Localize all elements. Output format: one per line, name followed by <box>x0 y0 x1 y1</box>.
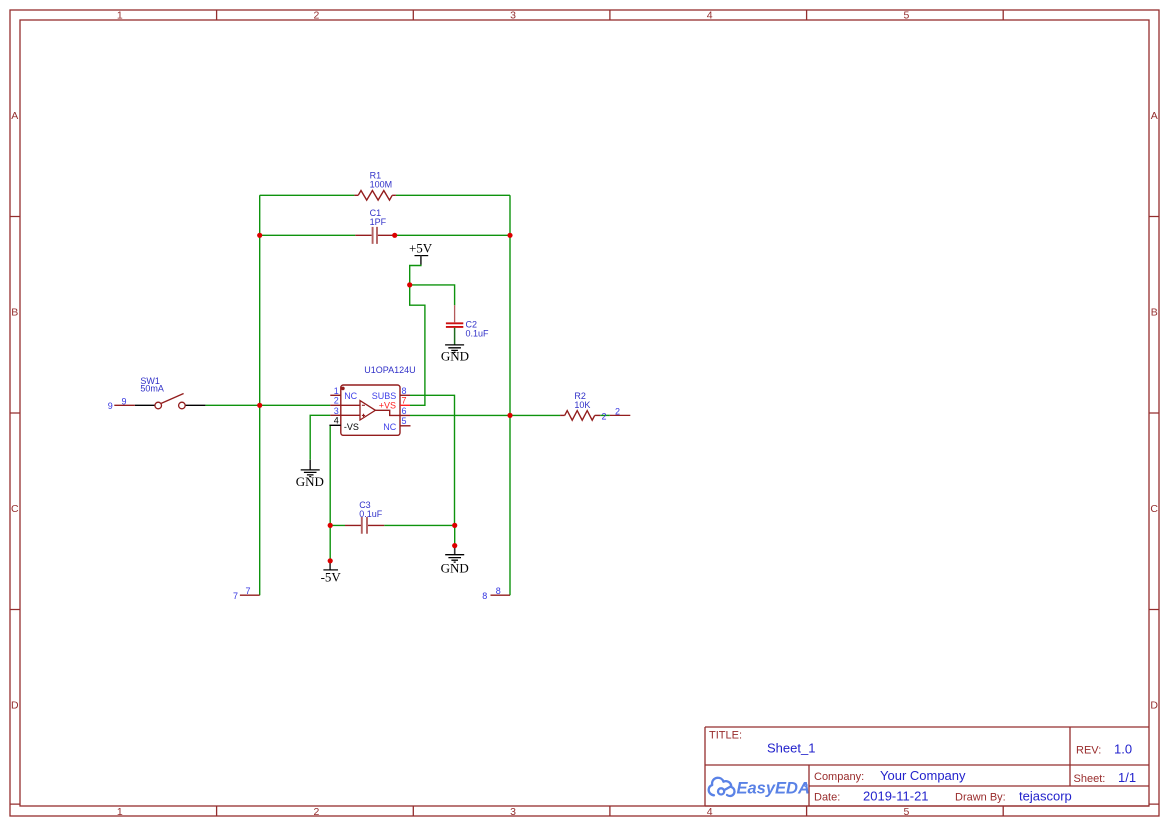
op-amp U1 <box>341 385 410 435</box>
junction output vertical <box>507 413 512 418</box>
svg-text:1PF: 1PF <box>370 217 387 227</box>
wire SUBS pin8 <box>410 395 455 525</box>
title block frame <box>705 727 1149 806</box>
wire left vertical <box>259 195 261 595</box>
svg-text:U1OPA124U: U1OPA124U <box>364 365 415 375</box>
netflag 9 lead <box>114 404 135 406</box>
junction GND bottom <box>452 543 457 548</box>
svg-text:4: 4 <box>707 806 713 818</box>
svg-text:9: 9 <box>108 401 113 411</box>
ruler numbers bottom <box>117 806 910 818</box>
pin 7 stub <box>400 404 410 406</box>
ruler ticks right <box>1149 217 1159 805</box>
wire R1 top row <box>260 194 510 196</box>
svg-text:GND: GND <box>441 560 469 575</box>
svg-text:TITLE:: TITLE: <box>709 730 742 742</box>
pin 1 stub <box>330 394 341 396</box>
ruler ticks bottom <box>217 806 1004 816</box>
svg-text:7: 7 <box>245 586 250 596</box>
pin 5 stub <box>400 425 411 427</box>
junction +5V node <box>407 282 412 287</box>
svg-text:9: 9 <box>121 396 126 406</box>
junction switch pin2 <box>257 403 262 408</box>
EasyEDA logo cloud <box>709 778 735 796</box>
wire C3 right to ground <box>454 525 456 545</box>
resistor R1 <box>354 191 396 201</box>
svg-text:Your Company: Your Company <box>880 768 966 783</box>
wire R2 to netflag 2 <box>600 414 610 416</box>
wire C1 row <box>260 234 510 236</box>
svg-text:NC: NC <box>344 391 357 401</box>
pin 3 stub <box>330 414 341 416</box>
svg-text:8: 8 <box>496 586 501 596</box>
svg-text:50mA: 50mA <box>140 383 164 393</box>
junction -5V <box>328 558 333 563</box>
svg-text:Company:: Company: <box>814 771 864 783</box>
svg-text:1.0: 1.0 <box>1114 741 1132 756</box>
junction C3 left <box>328 523 333 528</box>
wire C3 row <box>330 524 455 526</box>
power flag +5V <box>409 241 433 265</box>
svg-text:1: 1 <box>334 386 339 396</box>
netflag 2 lead <box>610 414 631 416</box>
wire +5V node to C2 <box>410 285 455 305</box>
resistor R2 <box>560 411 600 421</box>
svg-text:4: 4 <box>334 416 339 426</box>
svg-text:D: D <box>1150 699 1158 711</box>
svg-text:3: 3 <box>510 10 516 22</box>
svg-text:7: 7 <box>402 396 407 406</box>
junction C1 right vertical <box>507 233 512 238</box>
ground GND under C2 <box>441 345 469 364</box>
wire output pin6 to R2 <box>410 414 560 416</box>
wire +5V feed <box>410 265 421 285</box>
capacitor C2 <box>446 305 463 345</box>
ground GND at pin3 <box>296 460 324 489</box>
svg-text:5: 5 <box>903 806 909 818</box>
junction C3 right <box>452 523 457 528</box>
wire switch to pin2 <box>205 404 330 406</box>
svg-text:SUBS: SUBS <box>372 391 397 401</box>
svg-text:1/1: 1/1 <box>1118 770 1136 785</box>
svg-text:-5V: -5V <box>321 569 342 584</box>
junction C1 left <box>257 233 262 238</box>
svg-text:8: 8 <box>482 591 487 601</box>
ground GND bottom <box>441 546 469 576</box>
capacitor C3 <box>345 517 384 534</box>
svg-text:2: 2 <box>615 406 620 416</box>
svg-text:7: 7 <box>233 591 238 601</box>
svg-text:-VS: -VS <box>344 422 359 432</box>
svg-text:2019-11-21: 2019-11-21 <box>863 789 929 804</box>
svg-text:B: B <box>11 306 18 318</box>
svg-text:GND: GND <box>296 474 324 489</box>
svg-text:C: C <box>11 503 19 515</box>
svg-text:EasyEDA: EasyEDA <box>737 780 810 798</box>
svg-text:B: B <box>1151 306 1158 318</box>
ruler ticks left <box>10 217 20 805</box>
pin 2 stub <box>330 404 341 406</box>
svg-text:Sheet_1: Sheet_1 <box>767 741 815 756</box>
svg-text:100M: 100M <box>370 180 393 190</box>
svg-text:3: 3 <box>510 806 516 818</box>
svg-text:A: A <box>11 110 18 122</box>
svg-text:6: 6 <box>402 406 407 416</box>
svg-text:A: A <box>1151 110 1158 122</box>
svg-text:tejascorp: tejascorp <box>1019 789 1072 804</box>
svg-text:3: 3 <box>334 406 339 416</box>
svg-text:2: 2 <box>602 412 607 422</box>
svg-text:2: 2 <box>313 10 319 22</box>
junction C1 right lead <box>392 233 397 238</box>
netflag 7 lead <box>240 594 260 596</box>
svg-text:Sheet:: Sheet: <box>1074 773 1106 785</box>
svg-text:GND: GND <box>441 349 469 364</box>
svg-text:0.1uF: 0.1uF <box>359 509 383 519</box>
svg-text:+5V: +5V <box>409 241 433 256</box>
svg-text:1: 1 <box>117 10 123 22</box>
svg-text:5: 5 <box>903 10 909 22</box>
svg-text:5: 5 <box>402 416 407 426</box>
svg-text:C: C <box>1150 503 1158 515</box>
svg-text:4: 4 <box>707 10 713 22</box>
wire right vertical <box>509 195 511 595</box>
svg-text:Drawn By:: Drawn By: <box>955 792 1006 804</box>
pin 8 stub <box>400 394 410 396</box>
ruler letters right <box>1150 110 1158 712</box>
ruler numbers top <box>117 10 910 22</box>
svg-text:1: 1 <box>117 806 123 818</box>
capacitor C1 <box>355 227 394 244</box>
ruler letters left <box>11 110 19 712</box>
switch SW1 <box>135 394 206 409</box>
svg-text:Date:: Date: <box>814 792 840 804</box>
EasyEDA logo registered mark <box>804 784 807 787</box>
svg-text:2: 2 <box>313 806 319 818</box>
svg-text:8: 8 <box>402 386 407 396</box>
svg-text:2: 2 <box>334 396 339 406</box>
ruler ticks top <box>217 10 1004 20</box>
svg-text:+VS: +VS <box>379 401 396 411</box>
netflag 8 lead <box>491 594 511 596</box>
svg-text:0.1uF: 0.1uF <box>466 329 490 339</box>
svg-text:10K: 10K <box>574 400 590 410</box>
svg-text:D: D <box>11 699 19 711</box>
wire +5V node to pin7 <box>410 285 425 405</box>
svg-text:REV:: REV: <box>1076 744 1101 756</box>
svg-text:NC: NC <box>383 422 396 432</box>
wire pin4 down <box>329 425 331 525</box>
pin 4 stub <box>329 424 340 426</box>
wire pin3 to ground <box>310 415 330 460</box>
wire C3 left to -5V <box>329 525 331 560</box>
power flag -5V <box>321 561 342 585</box>
